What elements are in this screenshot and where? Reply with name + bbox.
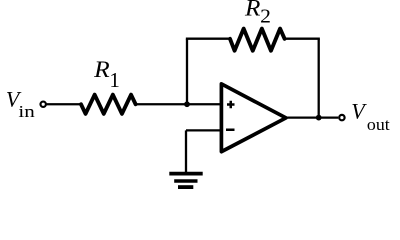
node junction dot output — [316, 115, 322, 121]
wire R2 to top right corner — [284, 38, 320, 40]
ground — [169, 174, 202, 188]
svg-text:in: in — [18, 103, 35, 122]
wire op-amp output — [285, 116, 338, 118]
terminal Vin — [41, 102, 46, 107]
minus sign (inverting input) — [226, 129, 235, 132]
svg-text:out: out — [367, 114, 390, 134]
wire Vin to R1 — [47, 103, 81, 105]
wire node A up — [186, 39, 188, 105]
wire op-amp inverting input left — [186, 129, 223, 131]
resistor R1 — [81, 95, 136, 114]
wire top left to R2 — [186, 38, 231, 40]
op-amp U1 — [221, 84, 286, 152]
svg-text:1: 1 — [109, 68, 120, 92]
svg-text:R: R — [93, 57, 110, 83]
node junction dot A — [184, 101, 190, 107]
wire down to ground — [185, 130, 187, 173]
svg-text:V: V — [351, 99, 367, 124]
wire R1 to op-amp + input — [136, 103, 223, 105]
plus sign (noninverting input) — [227, 101, 235, 109]
terminal Vout — [339, 115, 344, 120]
svg-text:2: 2 — [260, 4, 271, 27]
wire right vertical down — [318, 39, 320, 118]
svg-text:R: R — [244, 0, 261, 21]
resistor R2 — [230, 29, 285, 51]
